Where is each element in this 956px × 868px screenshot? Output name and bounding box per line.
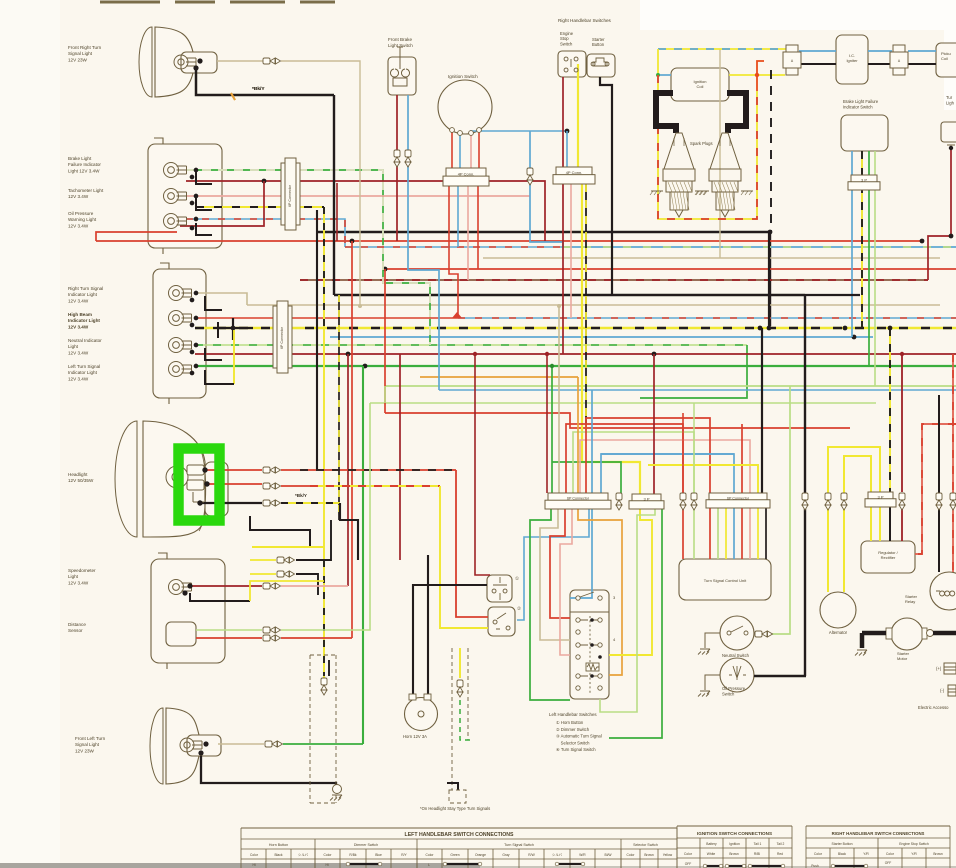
svg-text:White: White	[707, 852, 716, 856]
svg-text:Right Turn Signal: Right Turn Signal	[68, 286, 103, 291]
wire Bk dashed x771	[770, 70, 772, 232]
svg-text:12V 3.4W: 12V 3.4W	[68, 223, 89, 228]
wire Bei front left turn	[218, 743, 264, 745]
svg-text:① Horn Button: ① Horn Button	[556, 720, 584, 725]
wire group 6P right to turn signal control unit	[682, 413, 684, 493]
svg-text:Failure Indicator: Failure Indicator	[68, 162, 101, 167]
neutral switch body	[720, 616, 754, 650]
svg-text:6P Connector: 6P Connector	[567, 497, 590, 501]
wire Y into regulator	[871, 507, 880, 541]
svg-text:Selector Switch: Selector Switch	[633, 843, 658, 847]
wire Y/Bk vert x324 lower	[323, 560, 325, 676]
dashed alternate wiring left	[310, 655, 336, 803]
wire Bk speedo	[190, 593, 250, 601]
wire Bl/R oil warning	[186, 219, 345, 247]
ignition switch body	[438, 80, 492, 134]
wire Y alternator inner	[844, 456, 871, 592]
turn signal light body (right edge)	[941, 122, 956, 142]
wire Bk front right turn	[196, 68, 334, 95]
wire DR loop to junction	[180, 181, 264, 226]
svg-text:6P Connector: 6P Connector	[280, 326, 284, 349]
svg-text:シルバ: シルバ	[298, 853, 309, 857]
svg-text:IGNITION SWITCH CONNECTIONS: IGNITION SWITCH CONNECTIONS	[697, 831, 772, 836]
svg-text:Switch: Switch	[560, 41, 573, 46]
6P connector (right, horizontal)	[706, 493, 770, 508]
wire Bl bus y390	[439, 389, 956, 391]
wire Lg/G bus y345	[195, 344, 747, 346]
svg-text:Relay: Relay	[905, 599, 915, 604]
svg-text:Ignition: Ignition	[729, 842, 740, 846]
svg-text:12V 3.4W: 12V 3.4W	[68, 194, 89, 199]
regulator rectifier body	[861, 541, 915, 573]
svg-text:Signal Light: Signal Light	[75, 742, 100, 747]
svg-text:Ignition Switch: Ignition Switch	[448, 74, 478, 79]
bottom scan shadow	[0, 863, 480, 868]
svg-text:4P Conn.: 4P Conn.	[566, 170, 583, 175]
wire Y x582 to 3P	[582, 184, 640, 494]
svg-text:L: L	[428, 863, 430, 867]
wire Y/Bk x862	[861, 151, 863, 328]
svg-text:Y/R: Y/R	[863, 852, 869, 856]
wire Bk oil switch lead	[754, 675, 806, 678]
svg-text:①: ①	[515, 576, 519, 581]
wire Br/R bus y280	[300, 279, 928, 281]
svg-text:Turn Signal Switch: Turn Signal Switch	[504, 843, 534, 847]
wire Bei front right turn	[217, 60, 264, 62]
svg-text:Front Left Turn: Front Left Turn	[75, 736, 106, 741]
wire G bus y366	[195, 365, 956, 367]
svg-text:Color: Color	[684, 852, 693, 856]
wire Bk igniter row	[799, 63, 936, 65]
wire R bus y413	[385, 413, 850, 428]
speedometer box body	[151, 559, 225, 663]
svg-text:3 P: 3 P	[643, 496, 649, 501]
svg-text:Light: Light	[68, 574, 79, 579]
dimmer switch symbol	[493, 613, 510, 630]
wire Bk horn to horn button	[413, 585, 487, 694]
svg-text:Igniter: Igniter	[846, 58, 858, 63]
wire Bk horn 2	[427, 555, 429, 694]
wire Y/Bk bus y328	[195, 327, 956, 330]
front left turn signal light body	[150, 708, 221, 784]
svg-text:R/Bk: R/Bk	[349, 853, 356, 857]
svg-text:Push: Push	[811, 864, 819, 868]
left handlebar switch internals	[570, 611, 609, 613]
svg-text:Warning Light: Warning Light	[68, 217, 97, 222]
wire Bk starter button	[600, 77, 612, 295]
wire Bk step b2-1	[205, 296, 222, 310]
svg-text:Color: Color	[250, 853, 259, 857]
oil pressure switch details	[729, 666, 746, 680]
svg-text:Brake Light Failure: Brake Light Failure	[843, 99, 879, 104]
svg-text:Black: Black	[274, 853, 282, 857]
svg-text:Orange: Orange	[475, 853, 486, 857]
wire R high beam y318	[195, 317, 458, 319]
svg-text:Motor: Motor	[897, 656, 908, 661]
svg-text:Oil Pressure: Oil Pressure	[68, 211, 94, 216]
wire DR vert x348	[347, 354, 349, 586]
wire Bk x939 relay	[938, 395, 940, 572]
svg-text:Indicator Light: Indicator Light	[68, 318, 100, 323]
svg-text:Light Switch: Light Switch	[388, 43, 413, 48]
starter motor details	[886, 628, 892, 639]
svg-text:Tail 2: Tail 2	[777, 842, 785, 846]
wire group nested mesh to 6P connector left	[551, 366, 553, 493]
6P connector (left, horizontal)	[545, 493, 611, 509]
svg-text:Indicator Switch: Indicator Switch	[843, 104, 873, 109]
wire R dash x953 relay	[952, 354, 954, 572]
connector front right turn	[263, 58, 281, 64]
svg-text:Blue: Blue	[375, 853, 382, 857]
wire Bl run y454	[601, 453, 734, 455]
wire Bk drop x770	[769, 232, 771, 326]
ignition switch terminals	[450, 128, 455, 133]
turn signal control unit body	[679, 559, 771, 600]
wire R vert x352	[351, 241, 353, 638]
svg-text:Tachometer Light: Tachometer Light	[68, 188, 104, 193]
svg-text:Speedometer: Speedometer	[68, 568, 96, 573]
svg-text:Indicator Light: Indicator Light	[68, 370, 98, 375]
svg-text:Neutral Switch: Neutral Switch	[722, 653, 750, 658]
wire R loop left	[96, 232, 177, 241]
wire Y coil to 3P	[729, 74, 785, 76]
6P connector A (vertical)	[281, 158, 300, 230]
svg-text:④ Turn Signal Switch: ④ Turn Signal Switch	[556, 747, 596, 752]
svg-text:Electric Accesso: Electric Accesso	[918, 705, 949, 710]
svg-text:Light: Light	[68, 344, 79, 349]
wire Y/Bk x890 regulator	[889, 328, 891, 492]
svg-text:Front Right Turn: Front Right Turn	[68, 45, 102, 50]
svg-text:12V 3.4W: 12V 3.4W	[68, 350, 89, 355]
wire G front left turn	[283, 743, 363, 745]
svg-text:LEFT HANDLEBAR SWITCH CONNE: LEFT HANDLEBAR SWITCH CONNECTIONS	[405, 832, 514, 838]
wire Bl x530 to bus	[530, 131, 563, 247]
svg-text:Left Handlebar Switches: Left Handlebar Switches	[549, 712, 597, 717]
svg-text:③ Automatic Turn Signal: ③ Automatic Turn Signal	[556, 734, 602, 739]
svg-text:OFF: OFF	[885, 861, 892, 865]
svg-text:Color: Color	[627, 853, 636, 857]
svg-text:Front Brake: Front Brake	[388, 37, 412, 42]
svg-text:Color: Color	[426, 853, 435, 857]
svg-text:Bl/W: Bl/W	[605, 853, 613, 857]
svg-text:シルバ: シルバ	[552, 853, 563, 857]
wire Bk step b2-4	[205, 370, 234, 384]
horn body	[405, 698, 438, 731]
wire DR engine stop down	[562, 77, 564, 167]
ignition switch connections table	[677, 825, 792, 827]
wire Bk/Y vert x339	[338, 295, 340, 520]
svg-text:Dimmer Switch: Dimmer Switch	[354, 843, 378, 847]
svg-text:Brake Light: Brake Light	[68, 156, 92, 161]
wire Bk jog below headlight	[340, 503, 358, 560]
spark plug 2	[696, 133, 753, 217]
wire G x869	[868, 151, 870, 366]
wire Bl bus y337	[330, 336, 873, 338]
svg-text:12V 23W: 12V 23W	[75, 748, 95, 753]
svg-text:Oil Pressure: Oil Pressure	[722, 686, 746, 691]
horn button switch body	[487, 575, 512, 602]
svg-text:3 P: 3 P	[877, 494, 883, 499]
connector brake switch leads	[394, 150, 400, 167]
wire DR speedo light	[190, 585, 262, 587]
wire DR bus y354	[195, 353, 956, 355]
wire group 3P feed	[648, 465, 758, 493]
starter relay body	[930, 572, 956, 610]
svg-text:Yellow: Yellow	[663, 853, 673, 857]
wire DR vert x400	[399, 354, 401, 560]
svg-text:Button: Button	[592, 42, 605, 47]
wire Bk/Y bus y295	[334, 294, 805, 296]
svg-text:W/R: W/R	[579, 853, 586, 857]
wire Y vert x324	[323, 330, 325, 560]
wire Y drop x234	[233, 330, 235, 384]
left handlebar switch box body	[570, 590, 609, 699]
wire R/W speedo	[281, 585, 348, 587]
wire Y alternator outer	[828, 447, 880, 592]
svg-text:Battery: Battery	[706, 842, 717, 846]
spark plug 1	[650, 133, 707, 217]
wire Y vert corner	[657, 49, 659, 75]
indicator lamp box 1 body	[148, 144, 222, 248]
green highlight box	[179, 449, 220, 521]
svg-text:Brown: Brown	[729, 852, 739, 856]
svg-text:(+): (+)	[936, 666, 942, 671]
wire Bl dimmer switch up	[517, 509, 589, 620]
front brake light switch symbol	[390, 47, 409, 86]
wire group below headlight	[250, 516, 310, 547]
wire G vert x363	[362, 366, 364, 744]
wire R/W tach	[186, 195, 530, 197]
indicator lamp box 2 body	[153, 269, 206, 398]
wire R/O jog at coil	[757, 61, 764, 91]
svg-text:Selector Switch: Selector Switch	[556, 740, 590, 745]
svg-text:Starter Button: Starter Button	[832, 842, 853, 846]
svg-text:(-): (-)	[940, 688, 945, 693]
svg-text:Headlight: Headlight	[68, 472, 88, 477]
svg-text:Color: Color	[324, 853, 333, 857]
wire Bl stub into coil	[658, 74, 671, 76]
svg-text:Left Turn Signal: Left Turn Signal	[68, 364, 100, 369]
starter motor body	[891, 618, 923, 650]
svg-text:R/Bl: R/Bl	[754, 852, 760, 856]
svg-text:6P Connector: 6P Connector	[727, 496, 750, 500]
svg-text:Indicator Light: Indicator Light	[68, 292, 98, 297]
wire Y/R loop around plugs	[658, 75, 757, 219]
svg-text:Color: Color	[886, 852, 895, 856]
wire R dashed x922 regulator	[915, 424, 956, 554]
connector A2	[890, 45, 908, 75]
wire Bk x805 to oil switch	[804, 295, 806, 676]
front right turn signal bulb	[174, 55, 196, 69]
wire Bl/R run y247	[345, 246, 563, 248]
I.C. igniter body	[836, 35, 868, 84]
starter button body	[587, 54, 615, 77]
wire G jog x747	[640, 345, 747, 398]
wire group headlight rows turning down	[300, 469, 456, 471]
svg-text:*Bk/Y: *Bk/Y	[252, 86, 265, 92]
svg-text:Turn Signal Control Unit: Turn Signal Control Unit	[704, 578, 747, 583]
wire Bl igniter row	[799, 50, 936, 52]
wire DR vert x337	[336, 183, 338, 241]
3P connector (regulator)	[865, 492, 896, 507]
neutral switch details	[727, 631, 731, 635]
wire DR rear turn light	[928, 150, 951, 280]
wire R headlight hi	[205, 469, 262, 471]
svg-text:Coil: Coil	[697, 84, 704, 89]
wire Bk steps box1	[196, 172, 212, 184]
wire DR tach light	[186, 181, 545, 241]
wire Bl/Lg bus y247	[563, 246, 956, 248]
svg-text:12V 50/35W: 12V 50/35W	[68, 478, 94, 483]
svg-text:Hi: Hi	[325, 863, 328, 867]
svg-text:Tail 1: Tail 1	[754, 842, 762, 846]
4P connector (right handlebar)	[553, 167, 595, 184]
bullet connectors right side row y494	[802, 493, 808, 510]
headlight body	[115, 421, 228, 537]
svg-text:② Dimmer Switch: ② Dimmer Switch	[556, 727, 590, 732]
svg-text:Coil: Coil	[941, 56, 948, 61]
wire G/w brake failure light	[186, 170, 430, 345]
svg-text:*On Headlight Stay Type Turn S: *On Headlight Stay Type Turn Signals	[420, 806, 490, 811]
ground front left turn	[333, 785, 342, 794]
wire Bl brake switch	[408, 95, 439, 390]
wire Bk headlight gnd	[200, 502, 262, 504]
svg-text:Color: Color	[814, 852, 823, 856]
svg-text:Tur: Tur	[946, 95, 953, 100]
wire Bk bus ext	[805, 294, 860, 296]
svg-text:Rectifier: Rectifier	[881, 555, 896, 560]
wire Y/Bk oil	[196, 206, 324, 208]
front left turn signal bulb	[180, 738, 202, 752]
svg-text:②: ②	[517, 606, 521, 611]
svg-text:12V 3.4W: 12V 3.4W	[68, 324, 89, 329]
connector A1	[783, 45, 801, 75]
svg-text:Brown: Brown	[933, 852, 943, 856]
dashed alternate wiring right	[452, 648, 468, 790]
wire Lg bus y403	[370, 402, 876, 404]
wire Bk front left turn	[201, 756, 336, 787]
wire Lg bus y386	[385, 385, 956, 387]
speedometer bulb	[169, 580, 192, 595]
wire Bei vert x720	[719, 49, 721, 258]
connectors headlight	[263, 467, 281, 473]
wire R/W x571	[570, 184, 572, 318]
svg-text:12V 23W: 12V 23W	[68, 57, 88, 62]
pickup coil body	[936, 43, 956, 77]
svg-text:R/W: R/W	[528, 853, 535, 857]
svg-text:3 P: 3 P	[861, 177, 867, 182]
svg-text:Neutral Indicator: Neutral Indicator	[68, 338, 102, 343]
svg-text:Sensor: Sensor	[68, 628, 83, 633]
svg-text:*Bk/Y: *Bk/Y	[295, 493, 307, 498]
wire Y/Bk after connector	[281, 502, 340, 504]
svg-text:Alternator: Alternator	[829, 630, 848, 635]
svg-text:Red: Red	[777, 852, 783, 856]
svg-text:Right Handlebar Switches: Right Handlebar Switches	[558, 18, 612, 23]
svg-text:Ligh: Ligh	[946, 100, 955, 105]
wire Lg x875	[874, 151, 876, 386]
connector on blue x530	[527, 168, 533, 185]
wire Bl y131	[470, 130, 567, 132]
brake light failure switch body	[841, 115, 888, 151]
wire Bl/R bus y318	[458, 317, 956, 319]
svg-text:Y/R: Y/R	[911, 852, 917, 856]
headlight bulb	[166, 465, 204, 502]
svg-text:Distance: Distance	[68, 622, 86, 627]
front brake light switch body	[388, 57, 416, 95]
4P connector (ignition)	[443, 168, 489, 186]
wire Bl into right 4P	[566, 131, 568, 167]
svg-text:Signal Light: Signal Light	[68, 51, 93, 56]
svg-text:Engine Stop Switch: Engine Stop Switch	[899, 842, 929, 846]
wire Y speedo jog	[250, 581, 324, 601]
svg-text:Switch: Switch	[722, 692, 735, 697]
wire Bei right turn ind	[195, 293, 247, 305]
wire DR brake switch	[396, 95, 398, 241]
wire Y/Bl top	[658, 48, 790, 50]
wire DR x563 to bus	[562, 184, 564, 354]
wire Bk step b2-3	[205, 348, 222, 360]
wire R bus y241	[96, 240, 920, 242]
wire Bei bus y305	[247, 304, 940, 306]
oil pressure switch body	[720, 658, 754, 692]
wire Bei long drop x360	[281, 61, 360, 306]
cropped page title	[100, 1, 335, 4]
horn button switch symbol	[492, 577, 507, 600]
box2 bulbs	[169, 286, 192, 301]
wire Y/Bk vert x324 upper	[323, 207, 325, 330]
svg-text:R/Y: R/Y	[401, 853, 407, 857]
wire Bk bus y232	[317, 231, 770, 233]
left handlebar switch connections table	[241, 827, 677, 829]
svg-text:RIGHT HANDLEBAR SWITCH CONNECT: RIGHT HANDLEBAR SWITCH CONNECTIONS	[832, 831, 925, 836]
wire Lg distance sensor	[196, 629, 262, 631]
svg-text:4P Conn.: 4P Conn.	[458, 172, 475, 177]
dimmer switch body	[488, 607, 515, 636]
3P connector (middle)	[629, 494, 664, 509]
wire Bl x852	[851, 151, 853, 337]
wire Bk vert x317	[316, 210, 318, 470]
wire R headlight lo	[207, 483, 262, 485]
wire Bk cross pieces box2	[217, 322, 219, 338]
svg-text:High Beam: High Beam	[68, 312, 92, 317]
svg-text:12V 3.4W: 12V 3.4W	[68, 580, 89, 585]
wire DR x654 to 3P	[653, 354, 655, 494]
svg-text:12V 3.4W: 12V 3.4W	[68, 298, 89, 303]
alternator body	[820, 592, 856, 628]
wire Bk/Y vert x586	[585, 184, 587, 430]
wire DR x902 regulator	[901, 354, 903, 541]
svg-text:Horn 12V 3A: Horn 12V 3A	[403, 734, 427, 739]
wire R bus y269	[385, 268, 956, 270]
front right turn signal light body	[139, 27, 217, 97]
right handlebar switch connections table	[806, 825, 950, 827]
wire Lg neutral switch	[772, 386, 790, 634]
wire O bus y375	[420, 376, 578, 378]
wire R distance sensor	[196, 637, 262, 639]
wire Lg jog x385	[384, 386, 386, 403]
svg-text:6P Connector: 6P Connector	[288, 184, 292, 207]
6P connector B (vertical)	[273, 301, 292, 373]
engine stop switch body	[558, 51, 586, 77]
wire 4P down to buses	[449, 186, 458, 315]
wire group 6P left down to handlebar switch	[530, 509, 570, 700]
svg-text:Hi: Hi	[252, 863, 255, 867]
svg-text:Green: Green	[450, 853, 459, 857]
box1 bulbs	[164, 163, 187, 178]
svg-text:Light 12V 3.4W: Light 12V 3.4W	[68, 168, 100, 173]
wire ignition switch to 4P	[451, 131, 453, 168]
